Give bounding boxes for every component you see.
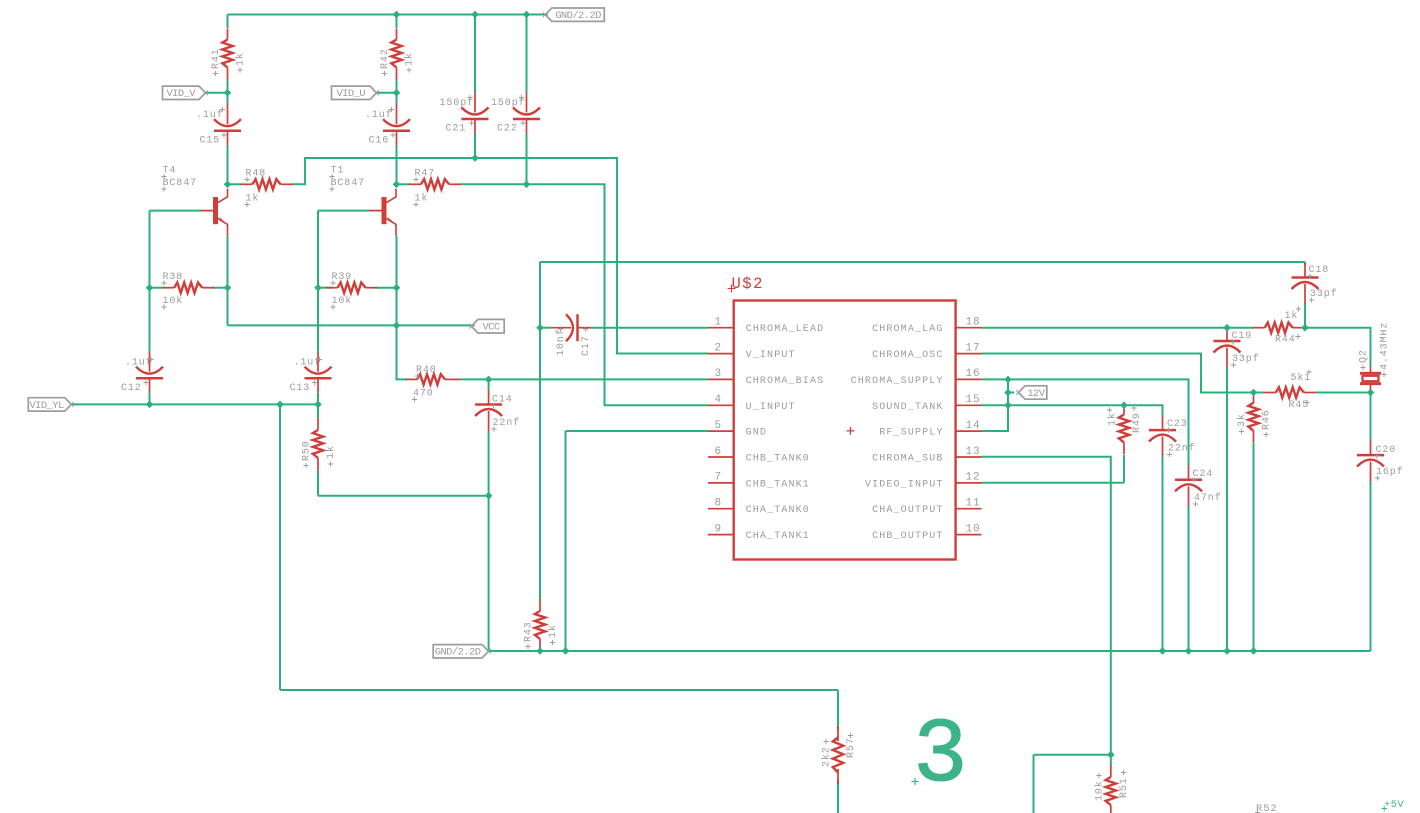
svg-text:C16: C16 [369, 136, 390, 147]
resistor R38 [162, 287, 174, 289]
pin 12 VIDEO_INPUT [956, 482, 982, 484]
svg-text:Q2: Q2 [1359, 349, 1370, 363]
wire T1 emitter down [396, 236, 398, 288]
svg-text:VCC: VCC [482, 322, 499, 334]
svg-text:V_INPUT: V_INPUT [746, 350, 796, 361]
wire pin5 GND net [566, 431, 709, 651]
svg-text:C22: C22 [497, 124, 518, 135]
pin 11 CHA_OUTPUT [956, 508, 982, 510]
wire C19 bottom column [1226, 368, 1228, 652]
node pin16 12V [1004, 376, 1012, 384]
svg-text:1: 1 [714, 317, 722, 329]
svg-text:3k: 3k [1236, 413, 1248, 427]
svg-text:1k: 1k [547, 624, 559, 638]
node C19 top [1223, 324, 1231, 332]
wire Q2 node to C20 [1370, 393, 1372, 443]
svg-text:C13: C13 [290, 383, 311, 394]
svg-text:22nf: 22nf [493, 417, 521, 429]
svg-text:CHROMA_OSC: CHROMA_OSC [872, 350, 944, 361]
svg-text:12: 12 [966, 472, 981, 484]
node R39 right [393, 284, 401, 292]
wire C12 to VID_YL net [149, 393, 151, 405]
svg-text:1k: 1k [1285, 310, 1299, 322]
svg-text:C15: C15 [200, 136, 221, 147]
svg-text:CHROMA_LEAD: CHROMA_LEAD [746, 324, 825, 335]
node C22 bottom [523, 181, 531, 189]
wire branch down [279, 404, 281, 690]
svg-text:U_INPUT: U_INPUT [746, 402, 796, 413]
wire C14 node to GND rail [488, 496, 490, 651]
net flag VID_YL [28, 398, 71, 411]
wire C18 top [1304, 262, 1306, 265]
wire C23 bottom [1162, 457, 1164, 652]
resistor R46 [1253, 391, 1255, 403]
svg-text:8: 8 [714, 498, 722, 510]
wire T1 base column [317, 211, 319, 288]
wire pin14 to 12V node [982, 379, 1009, 431]
wire C17 to pin1 [591, 327, 708, 329]
node R39 left [314, 284, 322, 292]
svg-text:CHROMA_LAG: CHROMA_LAG [872, 324, 944, 335]
node VCC row [393, 322, 401, 330]
svg-text:BC847: BC847 [331, 178, 366, 189]
wire top GND rail [228, 14, 548, 16]
svg-text:150pf: 150pf [491, 97, 526, 109]
svg-text:47nf: 47nf [1194, 492, 1222, 504]
svg-text:C20: C20 [1376, 445, 1397, 456]
wire C21 column [474, 15, 476, 159]
capacitor C13 [317, 352, 319, 372]
pin 13 CHROMA_SUB [956, 456, 982, 458]
resistor R43 [539, 599, 541, 611]
pin 16 CHROMA_SUPPLY [956, 378, 982, 380]
wire pin18 row [982, 327, 1255, 329]
wire R39 right [375, 287, 397, 289]
pin 7 CHB_TANK1 [708, 482, 734, 484]
wire R41 to VID_V node [227, 81, 229, 93]
wire C14 bottom [488, 431, 490, 496]
svg-text:18: 18 [966, 317, 981, 329]
svg-text:17: 17 [966, 342, 981, 354]
svg-text:VID_YL: VID_YL [29, 400, 64, 412]
node C14 bottom [485, 492, 493, 500]
wire VCC node to R40 [397, 325, 407, 379]
node R43 GND [536, 647, 544, 655]
wire C24 bottom [1188, 506, 1190, 651]
svg-text:R44: R44 [1275, 335, 1296, 346]
node R38 right [224, 284, 232, 292]
resistor R44 [1253, 327, 1265, 329]
pin 3 CHROMA_BIAS [708, 378, 734, 380]
transistor T4 BC847 [201, 210, 213, 212]
wire top net row [540, 261, 1305, 263]
svg-text:GND/2.2D: GND/2.2D [435, 647, 481, 659]
svg-text:C17: C17 [581, 335, 592, 356]
svg-text:16pf: 16pf [1376, 466, 1404, 478]
wire pin15 to C23 [982, 405, 1163, 416]
svg-text:R46: R46 [1262, 409, 1273, 430]
node C22 top rail [523, 11, 531, 19]
svg-text:5: 5 [714, 420, 722, 432]
svg-text:C21: C21 [446, 124, 467, 135]
node C17 left [536, 324, 544, 332]
svg-text:.1uf: .1uf [294, 357, 322, 369]
wire T4 emitter down [227, 236, 229, 288]
capacitor C18 [1304, 263, 1306, 278]
svg-text:CHA_OUTPUT: CHA_OUTPUT [872, 505, 944, 516]
node pin5 GND [562, 647, 570, 655]
svg-text:VIDEO_INPUT: VIDEO_INPUT [865, 479, 944, 490]
capacitor C22 [526, 93, 528, 113]
node branch [276, 401, 284, 409]
capacitor C19 [1226, 327, 1228, 342]
svg-text:15: 15 [966, 394, 981, 406]
svg-text:3: 3 [714, 368, 722, 380]
capacitor C14 [488, 390, 490, 405]
wire R49 bottom [1123, 455, 1125, 483]
svg-text:R48: R48 [246, 169, 267, 180]
pin 15 SOUND_TANK [956, 404, 982, 406]
wire R51 node left [1034, 754, 1111, 756]
wire R38 left [150, 287, 165, 289]
node R49 top [1120, 401, 1128, 409]
wire C17 node left [540, 327, 551, 329]
svg-text:CHA_TANK1: CHA_TANK1 [746, 531, 810, 542]
svg-text:4: 4 [714, 394, 722, 406]
svg-text:R52: R52 [1256, 803, 1278, 813]
wire R45 right to Q2 node [1316, 392, 1371, 394]
svg-text:2: 2 [714, 342, 722, 354]
svg-text:12V: 12V [1027, 388, 1045, 400]
capacitor C21 [474, 93, 476, 113]
resistor R47 [409, 183, 421, 185]
node T1 collector [393, 181, 401, 189]
wire T4 base [150, 210, 202, 212]
svg-text:C19: C19 [1232, 331, 1253, 342]
resistor R41 [227, 29, 229, 40]
wire bottom long row [280, 689, 838, 691]
svg-text:R40: R40 [416, 365, 437, 376]
node C18 R44 [1301, 324, 1309, 332]
svg-text:4.43MHz: 4.43MHz [1380, 322, 1391, 370]
wire VID_V to node [205, 92, 228, 94]
svg-text:R47: R47 [415, 169, 436, 180]
wire node down [1033, 755, 1035, 813]
wire R46 bottom column [1253, 443, 1255, 651]
svg-text:CHA_TANK0: CHA_TANK0 [746, 505, 810, 516]
node R46 GND [1250, 647, 1258, 655]
wire pin12 to R49 [982, 482, 1125, 484]
svg-text:33pf: 33pf [1232, 353, 1260, 365]
net flag GND/2.2D bottom [433, 645, 488, 658]
wire R50 bottom [317, 470, 319, 496]
svg-text:R41: R41 [211, 48, 222, 69]
capacitor C16 [396, 104, 398, 124]
wire R38 right [212, 287, 228, 289]
capacitor C17 [551, 327, 571, 329]
wire R40 to node [461, 378, 489, 380]
resistor R51 [1110, 765, 1112, 777]
svg-text:1k: 1k [415, 193, 429, 205]
pin 5 GND [708, 430, 734, 432]
transistor T1 BC847 [370, 210, 382, 212]
wire R42 top lead [396, 15, 398, 29]
svg-text:1k: 1k [325, 445, 337, 459]
node C24 GND [1185, 647, 1193, 655]
svg-text:CHB_OUTPUT: CHB_OUTPUT [872, 531, 944, 542]
wire C14 top [488, 379, 490, 390]
wire C20 to GND rail [1370, 481, 1372, 651]
svg-text:CHB_TANK0: CHB_TANK0 [746, 454, 810, 465]
wire node to VCC row [227, 288, 229, 326]
wire VCC row [228, 324, 475, 326]
wire R57 bottom [837, 781, 839, 813]
svg-text:C12: C12 [121, 383, 142, 394]
node C21 bottom [471, 154, 479, 162]
wire node down to R43 [539, 328, 541, 600]
wire C18 bottom [1304, 304, 1306, 328]
svg-text:R57: R57 [846, 737, 857, 758]
wire node up to top net [539, 262, 541, 328]
svg-text:14: 14 [966, 420, 981, 432]
svg-text:22nf: 22nf [1168, 443, 1196, 455]
wire C16 to T1 collector node [396, 145, 398, 184]
wire node to C15 [227, 93, 229, 105]
svg-text:16: 16 [966, 368, 981, 380]
wire R48 left [228, 183, 243, 185]
wire R44 to C18 node to Q2 [1303, 328, 1371, 367]
wire C22 column [526, 15, 528, 185]
svg-text:GND: GND [746, 428, 767, 439]
svg-text:+5V: +5V [1384, 799, 1404, 811]
pin 10 CHB_OUTPUT [956, 534, 982, 536]
node C21 top rail [471, 11, 479, 19]
net flag GND/2.2D top [545, 8, 604, 21]
capacitor C12 [149, 352, 151, 372]
svg-text:2k2: 2k2 [821, 746, 833, 767]
wire node to C16 [396, 93, 398, 105]
wire node to C13 [317, 288, 319, 352]
wire pin17 net [982, 354, 1265, 393]
wire VID_U to node [377, 92, 397, 94]
svg-text:470: 470 [413, 389, 434, 400]
wire C15 to T4 collector node [227, 145, 229, 184]
wire R50 top [317, 404, 319, 418]
node R51 top junction [1107, 751, 1115, 759]
svg-text:9: 9 [714, 523, 722, 535]
capacitor C20 [1370, 441, 1372, 456]
svg-text:BC847: BC847 [163, 178, 198, 189]
svg-text:6: 6 [714, 446, 722, 458]
svg-text:C18: C18 [1309, 265, 1330, 276]
svg-text:3: 3 [913, 705, 968, 808]
svg-text:RF_SUPPLY: RF_SUPPLY [879, 428, 943, 439]
net flag 12V [1019, 386, 1047, 399]
node C12 bottom [146, 401, 154, 409]
svg-text:C14: C14 [492, 395, 513, 406]
wire pin3 net [489, 378, 708, 380]
svg-text:R43: R43 [524, 621, 535, 642]
svg-text:CHROMA_SUPPLY: CHROMA_SUPPLY [851, 376, 944, 387]
wire R47 left [397, 183, 411, 185]
svg-text:13: 13 [966, 446, 981, 458]
pin 14 RF_SUPPLY [956, 430, 982, 432]
wire R48 to pin2 net [291, 158, 708, 354]
svg-text:.1uf: .1uf [196, 109, 224, 121]
node VID_U [393, 89, 401, 97]
svg-text:T1: T1 [331, 166, 345, 177]
node R42 top rail [393, 11, 401, 19]
node R38 left [146, 284, 154, 292]
svg-text:150pf: 150pf [440, 97, 475, 109]
svg-text:C24: C24 [1193, 469, 1214, 480]
svg-text:.1uf: .1uf [125, 357, 153, 369]
node pin15 12V [1004, 401, 1012, 409]
capacitor C23 [1162, 416, 1164, 431]
pin 1 CHROMA_LEAD [708, 327, 734, 329]
svg-text:T4: T4 [163, 166, 177, 177]
wire R47 to pin4 net [460, 184, 709, 405]
node C23 GND [1159, 647, 1167, 655]
svg-text:1k: 1k [235, 52, 247, 66]
node 12V [1004, 389, 1012, 397]
svg-text:CHB_TANK1: CHB_TANK1 [746, 479, 810, 490]
pin 17 CHROMA_OSC [956, 353, 982, 355]
svg-text:.1uf: .1uf [365, 109, 393, 121]
svg-text:7: 7 [714, 472, 722, 484]
wire R50 rail to C14 [318, 495, 489, 497]
wire R51 top [1110, 755, 1112, 766]
svg-text:R39: R39 [332, 272, 353, 283]
pin 4 U_INPUT [708, 404, 734, 406]
svg-text:33pf: 33pf [1310, 288, 1338, 300]
wire pin16 to C24 [982, 379, 1189, 465]
crystal Q2 4.43MHz [1370, 367, 1372, 374]
svg-text:1k: 1k [246, 193, 260, 205]
node Q2 bottom [1367, 389, 1375, 397]
net flag VCC [471, 319, 504, 333]
svg-text:1k: 1k [404, 52, 416, 66]
wire node to VCC node [396, 288, 398, 326]
resistor R45 [1264, 392, 1276, 394]
svg-text:R45: R45 [1289, 400, 1310, 411]
node R40 C14 [485, 376, 493, 384]
capacitor C15 [227, 104, 229, 124]
IC U$2 body [734, 301, 956, 560]
wire R42 to VID_U node [396, 81, 398, 93]
wire T1 base [318, 210, 370, 212]
wire 12V tap [1008, 392, 1014, 394]
svg-text:VID_U: VID_U [336, 88, 365, 100]
svg-text:5k1: 5k1 [1291, 372, 1312, 384]
svg-text:11: 11 [966, 498, 981, 510]
wire R57 top [837, 690, 839, 730]
wire node to C12 [149, 288, 151, 352]
wire R39 left [318, 287, 333, 289]
svg-text:10nf: 10nf [555, 328, 567, 356]
pin 18 CHROMA_LAG [956, 327, 982, 329]
net flag VID_V [163, 86, 206, 99]
resistor R50 [317, 418, 319, 430]
svg-text:10: 10 [966, 523, 981, 535]
wire C13 to VID_YL net [317, 393, 319, 405]
svg-text:C23: C23 [1167, 419, 1188, 430]
wire pin13 to R51 [982, 457, 1111, 755]
svg-text:R50: R50 [302, 440, 313, 461]
wire VID_YL row [71, 403, 318, 405]
wire R41 top lead [227, 15, 229, 29]
svg-text:GND/2.2D: GND/2.2D [555, 10, 601, 22]
svg-text:CHROMA_SUB: CHROMA_SUB [872, 454, 944, 465]
svg-text:10k: 10k [1094, 780, 1106, 801]
resistor R48 [241, 183, 253, 185]
pin 6 CHB_TANK0 [708, 456, 734, 458]
svg-text:R38: R38 [163, 272, 184, 283]
resistor R42 [396, 29, 398, 40]
pin 9 CHA_TANK1 [708, 534, 734, 536]
node VID_V [224, 89, 232, 97]
svg-text:R42: R42 [380, 48, 391, 69]
svg-text:1k: 1k [1107, 412, 1119, 426]
resistor R39 [326, 287, 338, 289]
resistor R40 [455, 378, 461, 380]
wire T4 base column [149, 211, 151, 288]
capacitor C24 [1188, 465, 1190, 480]
svg-text:10k: 10k [332, 295, 353, 307]
net flag VID_U [332, 86, 377, 99]
wire GND rail [489, 650, 1371, 652]
svg-text:R49: R49 [1132, 412, 1143, 433]
pin 8 CHA_TANK0 [708, 508, 734, 510]
wire R43 bottom [539, 650, 541, 651]
svg-text:VID_V: VID_V [166, 88, 196, 100]
node T4 collector [224, 181, 232, 189]
svg-text:CHROMA_BIAS: CHROMA_BIAS [746, 376, 825, 387]
svg-text:U$2: U$2 [732, 275, 764, 293]
svg-text:R51: R51 [1119, 777, 1130, 798]
node C19 GND [1223, 647, 1231, 655]
svg-text:SOUND_TANK: SOUND_TANK [872, 402, 944, 413]
svg-text:10k: 10k [163, 295, 184, 307]
node R46 top [1250, 389, 1258, 397]
resistor R49 [1123, 403, 1125, 415]
pin 2 V_INPUT [708, 353, 734, 355]
resistor R57 [837, 726, 839, 741]
node C13 R50 [314, 401, 322, 409]
